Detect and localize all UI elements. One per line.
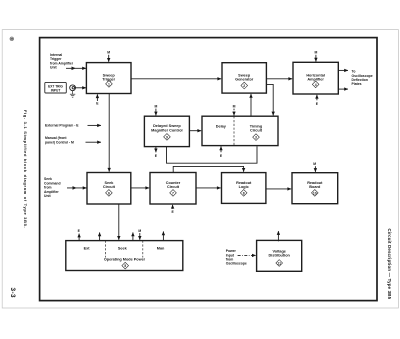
wire: E into Delay bottom — [220, 146, 222, 152]
wire: E below Delayed Sweep Magnifier — [155, 147, 157, 153]
wire: Timing Circuit up to Sweep Generator — [250, 94, 252, 116]
svg-text:Ext: Ext — [84, 247, 91, 251]
wire: Horizontal Amplifier output lower — [338, 88, 348, 90]
wire: Delayed Sweep Magnifier to Delay — [189, 130, 201, 132]
wire: M into Readout Board top — [314, 166, 316, 172]
wire: manual control arrow — [86, 141, 102, 143]
svg-text:1: 1 — [108, 82, 110, 86]
block: Voltage Distribution — [257, 240, 302, 271]
label: Seek Command from Amplifier Unit — [44, 177, 61, 198]
svg-text:Board: Board — [309, 185, 321, 189]
block: Seek Circuit — [87, 173, 131, 205]
svg-text:Circuit: Circuit — [103, 185, 116, 189]
connector: EXT TRIG INPUT — [45, 82, 76, 93]
block: Counter Circuit — [150, 173, 196, 205]
svg-text:10: 10 — [313, 191, 317, 195]
wire: M down into Operating Mode — [139, 233, 141, 240]
wire: seek command into Seek Circuit — [67, 186, 87, 190]
wire: M into Horizontal Amplifier top — [315, 55, 317, 62]
svg-text:Man: Man — [157, 247, 165, 251]
svg-text:9: 9 — [166, 135, 168, 139]
svg-text:4: 4 — [315, 83, 317, 87]
diagram frame — [40, 38, 377, 301]
wire: ext trig to Sweep Trigger — [76, 87, 87, 89]
label: Manual (front panel) Control - M — [45, 136, 74, 144]
label: Internal Trigger from Amplifier Unit — [50, 53, 74, 70]
svg-text:M: M — [154, 104, 157, 108]
svg-text:Circuit: Circuit — [250, 129, 263, 133]
wire: Horizontal Amplifier output upper — [338, 69, 348, 71]
wire: Sweep Trigger down to Seek Circuit — [108, 94, 110, 172]
svg-text:M: M — [314, 51, 317, 55]
svg-text:M: M — [138, 229, 141, 233]
wire: stub up from Voltage Distribution — [277, 231, 279, 241]
svg-text:6: 6 — [108, 191, 110, 195]
svg-text:Fig. 3-1 Simplified block dia: Fig. 3-1 Simplified block diagram of Typ… — [23, 110, 28, 228]
svg-text:3: 3 — [255, 136, 257, 140]
wire: E stub up from Operating Mode — [78, 234, 80, 241]
svg-text:11: 11 — [277, 261, 281, 265]
svg-text:Magnifier Control: Magnifier Control — [151, 128, 182, 132]
svg-text:Unit: Unit — [50, 66, 57, 70]
block: Delay / Timing Circuit — [202, 116, 278, 145]
wire: M into Sweep Trigger top — [108, 55, 110, 62]
svg-text:INPUT: INPUT — [51, 88, 61, 92]
wire: Seek Circuit to Counter Circuit — [131, 187, 149, 189]
wire: M dashed into Delay top — [233, 109, 235, 116]
svg-text:External Program - E: External Program - E — [45, 124, 79, 128]
svg-text:Unit: Unit — [44, 194, 51, 198]
wire: E into Horizontal Amplifier bottom — [316, 95, 318, 101]
wire: M into Delayed Sweep Magnifier top — [155, 109, 157, 116]
wire: Sweep Generator to Horizontal Amplifier — [266, 78, 292, 80]
svg-text:M: M — [233, 104, 236, 108]
wire: external program arrow — [88, 124, 102, 126]
block: Horizontal Amplifier — [293, 62, 338, 94]
svg-text:7: 7 — [172, 191, 174, 195]
block: Sweep Generator — [222, 63, 266, 93]
svg-text:5: 5 — [124, 264, 126, 268]
block: Sweep Trigger — [86, 63, 131, 94]
ground below EXT TRIG connector — [70, 91, 75, 98]
svg-text:panel) Control - M: panel) Control - M — [45, 140, 74, 144]
svg-text:M: M — [313, 162, 316, 166]
svg-text:8: 8 — [243, 191, 245, 195]
svg-text:Operating Mode Power: Operating Mode Power — [104, 258, 146, 262]
wire: internal trigger into Sweep Trigger — [66, 67, 86, 71]
wire: E into Sweep Trigger bottom — [96, 94, 98, 101]
block: Operating Mode Power — [66, 241, 183, 271]
wire: Seek Circuit down to Operating Mode Power — [118, 204, 120, 240]
svg-text:Circuit Description — Type 3B5: Circuit Description — Type 3B5 — [387, 229, 392, 300]
wire: stub up from Operating Mode (Ext) — [99, 232, 101, 240]
label: Power Input from Oscilloscope — [226, 249, 247, 265]
svg-text:Logic: Logic — [239, 185, 249, 189]
svg-text:Delay: Delay — [216, 124, 227, 128]
svg-text:Circuit: Circuit — [167, 185, 180, 189]
svg-text:Oscilloscope: Oscilloscope — [226, 262, 247, 266]
svg-text:Distribution: Distribution — [269, 254, 291, 258]
wire: Sweep Generator branch down to Timing Circuit — [266, 84, 273, 115]
wire: Sweep Trigger to Sweep Generator — [131, 78, 221, 80]
registration mark top-left — [10, 37, 14, 41]
wire: Counter top run to Readout Logic top — [173, 166, 243, 172]
svg-text:M: M — [107, 51, 110, 55]
wire: Counter Circuit to Readout Logic — [196, 187, 221, 189]
svg-text:Plates: Plates — [352, 82, 362, 86]
wire: stub up from Operating Mode (Man) — [162, 231, 164, 240]
svg-text:Generator: Generator — [235, 78, 254, 82]
svg-text:3-3: 3-3 — [9, 288, 16, 298]
wire: power input dash-dot arrow into Voltage Distribution — [238, 254, 256, 256]
wire: stub up from Operating Mode (Seek) — [132, 232, 134, 240]
wire: Readout Logic to Readout Board — [266, 188, 291, 190]
svg-text:2: 2 — [243, 84, 245, 88]
block: Readout Logic — [222, 173, 266, 204]
wire: Delayed Sweep Magnifier bottom run to Timing bottom — [167, 146, 258, 163]
block: Readout Board — [292, 173, 338, 204]
svg-text:Seek: Seek — [118, 247, 128, 251]
wire: E into Counter bottom — [172, 205, 174, 209]
label: To Oscilloscope Deflection Plates — [352, 70, 373, 87]
block: Delayed Sweep Magnifier Control — [144, 116, 189, 146]
